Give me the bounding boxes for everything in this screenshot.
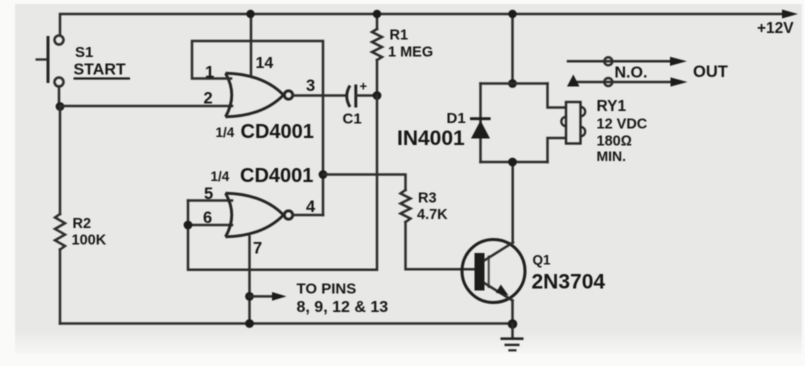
transistor Q1: [462, 240, 525, 303]
svg-text:1 MEG: 1 MEG: [388, 45, 433, 61]
wire relay branch bottom: [548, 138, 567, 162]
resistor R1: [372, 14, 382, 96]
svg-text:4.7K: 4.7K: [417, 207, 448, 223]
svg-text:S1: S1: [75, 44, 93, 61]
relay contact N.O. top line: [568, 60, 672, 63]
svg-text:C1: C1: [343, 111, 362, 128]
svg-text:+: +: [360, 79, 368, 94]
wire +12V top rail: [60, 14, 786, 35]
NOR gate U1a body: [226, 73, 293, 117]
resistor R3: [401, 190, 411, 222]
wire Q1 emitter: [511, 301, 514, 325]
wire left rail upper: [59, 106, 62, 214]
svg-text:R2: R2: [73, 216, 92, 232]
svg-text:MIN.: MIN.: [597, 148, 627, 164]
junction dot TO PINS: [245, 292, 254, 301]
junction dot S1/R2/pin2: [56, 102, 65, 111]
svg-text:1: 1: [205, 64, 214, 82]
svg-text:OUT: OUT: [693, 63, 728, 81]
svg-text:4: 4: [306, 198, 316, 216]
wire C1 to junction: [356, 94, 377, 97]
wire D1 branch (left side of loop): [479, 84, 482, 163]
svg-text:7: 7: [253, 240, 262, 258]
wire pin 1 + feedback box to pin4 net: [192, 41, 323, 215]
junction dot pin14 rail: [246, 10, 254, 18]
svg-text:CD4001: CD4001: [240, 165, 313, 187]
wire pin 14: [250, 14, 253, 75]
junction dot pin 6: [184, 221, 193, 230]
svg-text:2N3704: 2N3704: [532, 271, 606, 294]
svg-text:R1: R1: [390, 28, 409, 44]
svg-text:Q1: Q1: [533, 253, 552, 268]
svg-text:8, 9, 12 & 13: 8, 9, 12 & 13: [297, 299, 389, 316]
junction dot relay rail: [508, 10, 516, 18]
svg-text:CD4001: CD4001: [241, 121, 314, 143]
wire D1/relay loop top: [481, 82, 548, 85]
svg-text:1/4: 1/4: [216, 125, 235, 140]
svg-text:N.O.: N.O.: [615, 65, 648, 82]
wire pin 5: [188, 199, 232, 202]
wire pin 4 output: [293, 214, 323, 217]
wire R3 to Q1 base: [406, 222, 475, 269]
svg-text:100K: 100K: [72, 233, 107, 249]
wire pin4 node to R3: [323, 175, 406, 191]
capacitor C1 plates: [347, 86, 350, 108]
switch S1 pushbutton: [36, 36, 64, 105]
wire relay branch top: [548, 84, 567, 108]
wire loop bottom: [481, 161, 548, 164]
resistor R2: [55, 214, 65, 250]
wire pin 7 down: [248, 237, 251, 324]
wire pin 6: [188, 224, 232, 227]
ground symbol: [501, 324, 524, 350]
svg-text:START: START: [74, 62, 126, 79]
svg-text:5: 5: [204, 185, 213, 203]
svg-text:12 VDC: 12 VDC: [597, 117, 648, 133]
svg-text:14: 14: [256, 55, 274, 72]
relay coil RY1: [561, 102, 585, 144]
svg-text:3: 3: [306, 77, 315, 95]
junction dot pin7 bottom rail: [245, 319, 254, 328]
svg-text:R3: R3: [418, 191, 437, 207]
svg-text:6: 6: [203, 209, 212, 227]
NOR gate U1b body: [226, 193, 293, 237]
svg-text:TO PINS: TO PINS: [297, 281, 357, 298]
svg-text:1/4: 1/4: [211, 169, 230, 184]
junction dot loop bottom / collector: [508, 158, 517, 167]
svg-text:IN4001: IN4001: [397, 127, 465, 150]
junction dot pin4/R3: [319, 170, 328, 179]
wire pin 3 output: [293, 94, 346, 97]
+12V rail arrowhead: [782, 10, 798, 19]
svg-text:2: 2: [204, 90, 213, 108]
arrow TO PINS: [250, 295, 275, 298]
svg-text:+12V: +12V: [757, 20, 794, 37]
junction dot loop top: [508, 79, 517, 88]
svg-text:RY1: RY1: [597, 98, 627, 115]
relay contact common (bottom line): [576, 81, 673, 84]
junction dot R1 rail: [373, 10, 381, 18]
wire Q1 collector: [511, 162, 514, 243]
wire pin 2 input: [60, 105, 232, 108]
svg-text:D1: D1: [447, 110, 466, 127]
wire bottom rail: [60, 322, 513, 325]
wire C1 node down and to gate2 inputs: [188, 96, 377, 270]
junction dot C1/R1 node: [373, 91, 382, 100]
relay armature triangle: [567, 75, 580, 87]
wire +12V rail to relay: [511, 14, 514, 84]
diode D1: [470, 119, 491, 139]
junction dot emitter/ground: [508, 319, 518, 329]
wire left rail lower: [59, 250, 62, 324]
